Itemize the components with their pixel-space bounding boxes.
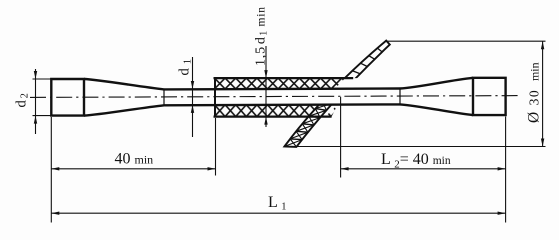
svg-text:Ø 30 min: Ø 30 min <box>526 62 543 123</box>
svg-text:40 min: 40 min <box>115 151 154 168</box>
